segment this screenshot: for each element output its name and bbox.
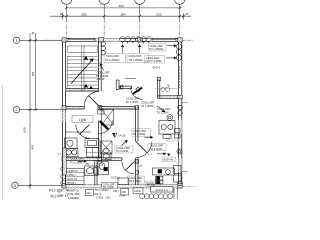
svg-text:i,lj,til: i,lj,til (79, 118, 86, 122)
svg-text:2: 2 (15, 107, 17, 112)
svg-text:s ;l: s ;l (148, 152, 152, 156)
svg-text:1.2KW: 1.2KW (97, 77, 105, 81)
svg-text:+4.25: +4.25 (118, 133, 125, 137)
svg-text:TO 1.2KW(t): TO 1.2KW(t) (129, 58, 144, 62)
svg-text:3: 3 (14, 183, 16, 188)
svg-text:T.2 TO 1.2KW: T.2 TO 1.2KW (145, 59, 162, 63)
svg-text:COOL;t: COOL;t (111, 176, 120, 180)
svg-text:TO 1.2KWt: TO 1.2KWt (141, 104, 154, 108)
svg-text:TO KW t: TO KW t (67, 182, 76, 185)
svg-text:60o ;lt: 60o ;lt (94, 192, 101, 196)
svg-text:wj ,).li ,t ~.s l,: wj ,).li ,t ~.s l, (50, 194, 69, 198)
svg-text:TO 1.2KWt: TO 1.2KWt (150, 147, 163, 151)
svg-text:1.2W: 1.2W (119, 194, 126, 198)
svg-text:285: 285 (81, 12, 86, 16)
svg-text:1.2KW ;t: 1.2KW ;t (67, 174, 77, 177)
svg-text:515: 515 (156, 12, 161, 16)
svg-text:TO 1.2KWt: TO 1.2KWt (126, 100, 139, 104)
svg-text:TO 1.2KW(t): TO 1.2KW(t) (149, 47, 164, 51)
svg-text:o .l: o .l (58, 153, 62, 156)
svg-text:304: 304 (118, 4, 123, 8)
svg-text:TO 1.2KW(t): TO 1.2KW(t) (105, 58, 120, 62)
svg-text:TO 1.2KWt: TO 1.2KWt (133, 132, 146, 136)
svg-text:TO 1.2KW: TO 1.2KW (70, 160, 83, 164)
svg-text:TO 1.2KW;t: TO 1.2KW;t (95, 188, 109, 192)
svg-text:COOL 1.2: COOL 1.2 (155, 188, 168, 192)
svg-text:COOL;OFF: COOL;OFF (146, 56, 160, 60)
svg-text:COOL;OFF: COOL;OFF (106, 54, 120, 58)
svg-text:COOL OF: COOL OF (67, 178, 78, 181)
svg-text:COOL;OFF: COOL;OFF (150, 44, 164, 48)
svg-text:COOL: COOL (134, 190, 141, 193)
svg-text:1.2t: 1.2t (75, 197, 79, 200)
svg-text:KGF.AN: KGF.AN (164, 158, 173, 162)
svg-text:340: 340 (31, 71, 35, 76)
svg-text:w.j ,) ,pi g~ ;lw: w.j ,) ,pi g~ ;lw (49, 188, 70, 192)
svg-text:dTF: dTF (85, 162, 90, 166)
svg-text:COOL;OFF: COOL;OFF (133, 129, 147, 133)
svg-text:KW;t: KW;t (113, 189, 119, 193)
svg-text:1: 1 (15, 38, 17, 43)
svg-text:COOL;OFF: COOL;OFF (71, 157, 85, 161)
svg-text:405: 405 (31, 144, 35, 149)
svg-text:o 60 t: o 60 t (105, 197, 111, 200)
svg-text:COOL;OFF: COOL;OFF (129, 54, 143, 58)
svg-text:cl-l~i: cl-l~i (152, 66, 159, 70)
svg-text:KWt: KWt (122, 191, 127, 194)
svg-text:384: 384 (120, 12, 125, 16)
svg-text:60o: 60o (87, 192, 92, 195)
svg-text:TO 1.2KW: TO 1.2KW (116, 149, 129, 153)
svg-text:TO 1.2KW: TO 1.2KW (129, 179, 142, 183)
svg-text:L.SWITCH: L.SWITCH (67, 170, 79, 173)
svg-text:1020: 1020 (22, 127, 26, 133)
svg-text:COOL: COOL (96, 196, 104, 200)
svg-text:o;t: o;t (140, 164, 143, 168)
